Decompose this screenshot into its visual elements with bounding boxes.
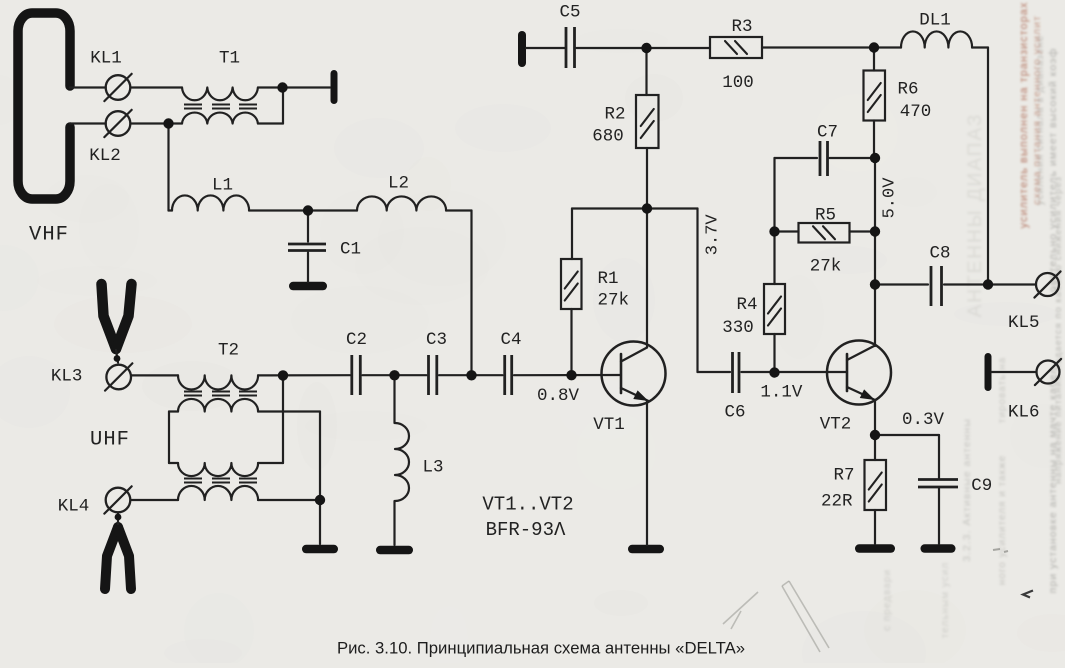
svg-text:0.3V: 0.3V (902, 410, 945, 430)
svg-text:усилитель выполнен на транзист: усилитель выполнен на транзисторах (1018, 2, 1030, 229)
svg-text:22R: 22R (821, 492, 853, 512)
svg-text:5.0V: 5.0V (881, 177, 900, 219)
svg-text:C2: C2 (346, 330, 367, 350)
svg-text:KL1: KL1 (90, 49, 122, 69)
svg-text:R3: R3 (731, 17, 752, 37)
svg-text:схема питания антенного усилит: схема питания антенного усилит (1031, 15, 1043, 205)
svg-text:VT2: VT2 (820, 415, 852, 435)
svg-text:R1: R1 (598, 269, 619, 289)
svg-text:тельным усил: тельным усил (940, 562, 951, 638)
svg-text:KL5: KL5 (1008, 313, 1040, 333)
svg-text:L2: L2 (388, 174, 409, 194)
svg-text:BFR-93Λ: BFR-93Λ (486, 519, 566, 541)
svg-text:R4: R4 (736, 295, 757, 315)
svg-text:C6: C6 (724, 403, 745, 423)
svg-text:KL4: KL4 (58, 497, 90, 517)
svg-text:напряжение питания подается по: напряжение питания подается по кабелю сн… (1053, 176, 1064, 484)
svg-text:330: 330 (722, 318, 754, 338)
svg-text:UHF: UHF (90, 429, 130, 452)
svg-text:R2: R2 (604, 105, 625, 125)
svg-text:L3: L3 (422, 458, 443, 478)
svg-text:ного усилителя и также: ного усилителя и также (997, 455, 1008, 586)
svg-text:680: 680 (592, 127, 624, 147)
svg-text:АНТЕННЫ ДИАПАЗ: АНТЕННЫ ДИАПАЗ (965, 113, 986, 318)
svg-text:Рис. 3.10. Принципиальная схем: Рис. 3.10. Принципиальная схема антенны … (337, 639, 745, 658)
svg-text:C1: C1 (340, 240, 361, 260)
svg-text:тировать на: тировать на (997, 357, 1008, 423)
svg-text:R5: R5 (815, 206, 836, 226)
svg-text:0.8V: 0.8V (537, 386, 580, 406)
svg-text:L1: L1 (212, 176, 233, 196)
svg-text:27k: 27k (598, 291, 630, 311)
svg-text:C4: C4 (500, 330, 521, 350)
svg-text:C3: C3 (426, 330, 447, 350)
svg-text:KL2: KL2 (89, 146, 121, 166)
svg-text:VT1: VT1 (593, 415, 625, 435)
svg-text:KL3: KL3 (51, 367, 83, 387)
svg-text:R6: R6 (897, 80, 918, 100)
svg-text:C8: C8 (929, 244, 950, 264)
svg-text:с предвари: с предвари (882, 569, 893, 631)
svg-text:C7: C7 (817, 123, 838, 143)
svg-text:DL1: DL1 (919, 11, 951, 31)
svg-text:3.7V: 3.7V (703, 214, 722, 256)
svg-text:VT1..VT2: VT1..VT2 (482, 494, 573, 516)
svg-text:C9: C9 (971, 476, 992, 496)
svg-text:KL6: KL6 (1008, 403, 1040, 423)
svg-text:27k: 27k (810, 257, 842, 277)
svg-text:T2: T2 (218, 341, 239, 361)
svg-text:VHF: VHF (29, 224, 69, 247)
svg-text:T1: T1 (219, 49, 240, 69)
svg-text:R7: R7 (833, 466, 854, 486)
svg-text:C5: C5 (559, 3, 580, 23)
svg-text:470: 470 (900, 102, 932, 122)
svg-text:100: 100 (722, 73, 754, 93)
svg-text:1.1V: 1.1V (760, 383, 803, 403)
